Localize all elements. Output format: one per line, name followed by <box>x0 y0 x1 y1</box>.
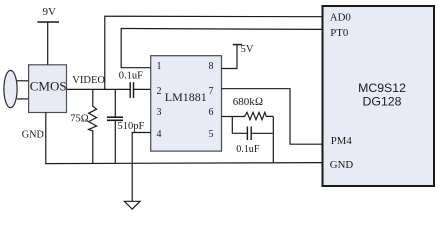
svg-text:5: 5 <box>209 129 214 140</box>
wire pin7 to PM4 <box>222 89 323 145</box>
camera lens connector J1 (ellipse) <box>4 70 17 107</box>
wire pin6 to RC network <box>222 116 233 118</box>
wire RC to ground bus <box>272 116 274 162</box>
svg-text:AD0: AD0 <box>330 12 351 24</box>
wire CMOS GND leg <box>45 113 47 164</box>
svg-text:GND: GND <box>330 159 354 171</box>
svg-text:8: 8 <box>209 61 214 72</box>
wire pin8 to 5V <box>222 45 238 69</box>
wire ground bus (bottom) <box>45 163 322 164</box>
svg-text:9V: 9V <box>43 6 57 18</box>
svg-text:1: 1 <box>157 61 162 72</box>
svg-text:LM1881: LM1881 <box>165 90 207 104</box>
resistor R1 75ohm <box>89 89 97 163</box>
node VIDEO wire (CMOS out to C1) <box>67 88 131 90</box>
op-amp / sync separator U2 LM1881 <box>151 56 222 151</box>
CMOS sensor block U1 <box>29 65 67 113</box>
microcontroller U3 MC9S12DG128 <box>323 6 435 186</box>
resistor R2 680k <box>232 112 273 119</box>
wire lens to CMOS bottom lead <box>17 98 29 100</box>
svg-text:DG128: DG128 <box>363 95 402 109</box>
svg-text:6: 6 <box>209 107 214 118</box>
svg-text:2: 2 <box>157 86 162 97</box>
svg-text:680kΩ: 680kΩ <box>233 96 263 108</box>
svg-text:7: 7 <box>209 86 214 97</box>
svg-text:510pF: 510pF <box>118 121 145 132</box>
5V supply symbol <box>233 44 242 46</box>
svg-text:0.1uF: 0.1uF <box>236 144 260 155</box>
capacitor C2 510pF <box>114 89 116 117</box>
capacitor C3 0.1uF (parallel) <box>232 117 247 134</box>
svg-text:3: 3 <box>157 107 162 118</box>
ground <box>124 201 140 209</box>
wire LM1881 pin1 to PT0 <box>121 29 322 68</box>
wire lens to CMOS top lead <box>17 80 29 82</box>
svg-text:0.1uF: 0.1uF <box>119 70 143 81</box>
svg-text:PM4: PM4 <box>331 135 353 147</box>
svg-text:VIDEO: VIDEO <box>72 75 105 86</box>
wire VIDEO node to AD0 <box>105 16 323 89</box>
svg-text:CMOS: CMOS <box>30 78 67 93</box>
wire pin4 to ground <box>132 133 151 202</box>
svg-text:4: 4 <box>157 129 162 140</box>
svg-text:5V: 5V <box>241 44 254 55</box>
svg-text:75Ω: 75Ω <box>70 114 89 125</box>
9V supply symbol <box>37 21 59 23</box>
capacitor C1 0.1uF (series) <box>129 82 131 98</box>
svg-text:MC9S12: MC9S12 <box>358 81 406 95</box>
svg-text:PT0: PT0 <box>330 27 348 39</box>
svg-text:GND: GND <box>22 129 44 140</box>
